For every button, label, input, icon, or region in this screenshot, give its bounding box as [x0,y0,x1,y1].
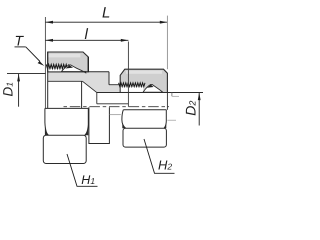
body lower silhouette [89,107,110,143]
nut N2 highlight band [126,71,162,74]
extension line (l) [127,42,129,107]
bore step vertical [96,93,98,104]
body lower faint step line [109,114,120,116]
dimension D2 [183,93,201,126]
ferrule F1 dark lip [66,65,74,68]
left tube end / extension line [44,17,46,108]
nut N1 section (gray) [48,52,89,72]
label T with leader [15,33,45,66]
body top edge [48,71,109,73]
nut N1 hex band A [45,108,88,135]
body right step vertical [108,72,110,85]
dimension D1 [0,74,45,107]
nut N2 section (gray) [120,69,167,92]
svg-text:L: L [102,5,110,22]
nut N2 hex band A [122,110,166,129]
thread T1 zigzag [46,64,68,68]
nut N1 highlight band [48,54,80,58]
ferrule F2 dark lip [147,85,154,88]
label H1 with leader [67,154,98,187]
ferrule F1 [62,65,86,73]
bore line [97,103,129,105]
dimension L [45,5,167,24]
tube collar line [172,95,179,97]
nut N1 bore gap [48,69,61,71]
nut N1 hex band B (front flat) [43,135,86,163]
nut N2 hex band B (front flat) [123,128,166,147]
dimension l [45,26,128,43]
body cone transition [83,81,98,92]
nut N1 left face [47,52,49,108]
nut N1 right face emphasis [87,57,89,72]
centerline [64,106,170,108]
nut N2 bore gap [121,87,144,92]
tube bottom hint [167,119,176,121]
body band bottom edge [48,80,83,82]
left tube end face [81,81,83,108]
svg-text:H1: H1 [81,173,95,187]
tube collar step [171,93,173,97]
nut N2 right face lower [166,93,168,110]
tube top edge [97,92,203,94]
extension line right (L) [166,16,168,70]
ferrule F2 [143,84,163,92]
body step lower edge [109,84,120,86]
thread T2 zigzag [119,83,145,87]
body mid section (gray) [48,72,121,93]
svg-text:T: T [15,33,25,49]
label H2 with leader [144,139,175,173]
